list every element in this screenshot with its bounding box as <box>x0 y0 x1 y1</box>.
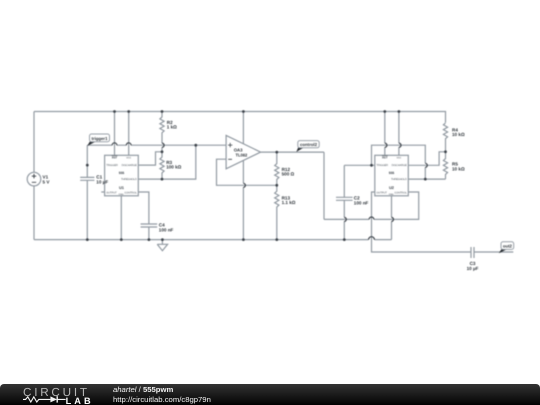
svg-text:THRESHOLD: THRESHOLD <box>391 178 407 181</box>
svg-text:10 kΩ: 10 kΩ <box>452 166 465 171</box>
svg-text:100 kΩ: 100 kΩ <box>166 165 181 170</box>
svg-text:500 Ω: 500 Ω <box>282 172 295 177</box>
svg-text:THRESHOLD: THRESHOLD <box>121 178 137 181</box>
svg-text:GND: GND <box>119 193 124 196</box>
svg-text:100 nF: 100 nF <box>354 200 369 205</box>
svg-text:CONTROL: CONTROL <box>394 191 407 194</box>
svg-text:5 V: 5 V <box>43 179 51 184</box>
svg-text:10 µF: 10 µF <box>467 266 479 271</box>
svg-text:VCC: VCC <box>126 157 131 160</box>
svg-text:RST: RST <box>112 157 118 160</box>
svg-text:OUTPUT: OUTPUT <box>376 191 387 194</box>
svg-text:1.1 kΩ: 1.1 kΩ <box>282 200 296 205</box>
svg-text:1 kΩ: 1 kΩ <box>167 125 177 130</box>
svg-text:control2: control2 <box>300 142 318 147</box>
svg-text:10 kΩ: 10 kΩ <box>452 132 465 137</box>
svg-text:RST: RST <box>382 157 388 160</box>
svg-text:OUTPUT: OUTPUT <box>106 191 117 194</box>
svg-text:555: 555 <box>119 171 125 175</box>
svg-text:TL082: TL082 <box>236 152 249 157</box>
svg-text:DISCHARGE: DISCHARGE <box>392 164 407 167</box>
svg-text:out2: out2 <box>503 243 513 248</box>
svg-text:TRIGGER: TRIGGER <box>376 164 388 167</box>
svg-text:GND: GND <box>389 193 394 196</box>
svg-text:10 µF: 10 µF <box>96 179 108 184</box>
svg-text:DISCHARGE: DISCHARGE <box>122 164 137 167</box>
svg-text:TRIGGER: TRIGGER <box>106 164 118 167</box>
svg-text:LAB: LAB <box>66 396 94 405</box>
svg-text:100 nF: 100 nF <box>159 227 174 232</box>
svg-text:VCC: VCC <box>396 157 401 160</box>
svg-text:trigger1: trigger1 <box>92 136 109 141</box>
svg-text:555: 555 <box>389 171 395 175</box>
svg-text:U1: U1 <box>119 185 125 190</box>
svg-text:U2: U2 <box>389 185 395 190</box>
svg-text:CONTROL: CONTROL <box>124 191 137 194</box>
